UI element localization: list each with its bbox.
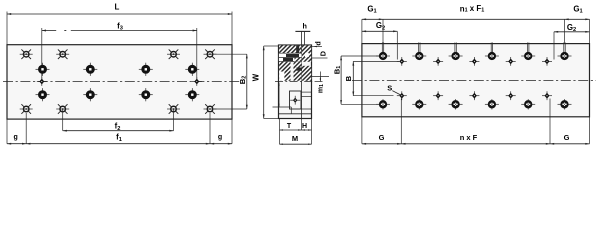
svg-text:g: g [14, 134, 18, 141]
svg-text:n x F: n x F [460, 133, 478, 142]
svg-text:G: G [564, 133, 570, 142]
svg-text:H: H [302, 123, 307, 130]
svg-text:M: M [292, 134, 298, 143]
svg-text:d: d [314, 41, 323, 45]
svg-text:T: T [287, 123, 292, 130]
svg-text:G: G [379, 133, 385, 142]
svg-text:L: L [115, 2, 120, 11]
svg-text:W: W [252, 73, 261, 81]
svg-text:h: h [303, 22, 307, 31]
svg-text:D: D [319, 51, 328, 56]
svg-text:g: g [218, 134, 222, 141]
svg-text:B: B [344, 75, 353, 81]
svg-text:m1: m1 [317, 84, 325, 93]
svg-text:S: S [387, 84, 392, 93]
svg-text:n1 x F1: n1 x F1 [460, 4, 484, 14]
